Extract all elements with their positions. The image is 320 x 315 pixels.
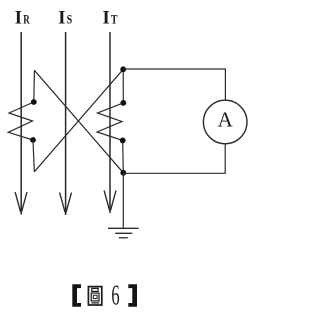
arrow IR <box>15 192 27 212</box>
caption bracket right <box>128 284 137 307</box>
wire diagonal from right top to left bottom <box>34 69 123 172</box>
wire IT phase line <box>109 32 111 213</box>
wire left branch upper segment <box>33 70 36 102</box>
ammeter A <box>203 100 247 144</box>
svg-text:6: 6 <box>111 280 119 312</box>
node left bottom junction <box>30 137 36 143</box>
arrow IT <box>104 191 116 211</box>
resistor left <box>8 102 34 140</box>
caption bracket left <box>72 284 81 307</box>
resistor right <box>97 103 123 140</box>
svg-text:IT: IT <box>103 8 118 28</box>
node left top junction <box>31 99 37 105</box>
node right junction 3 <box>120 138 126 144</box>
svg-text:IS: IS <box>58 8 72 28</box>
wire diagonal from left top to right bottom <box>34 70 123 173</box>
svg-text:IR: IR <box>15 8 30 28</box>
arrow IS <box>60 193 72 213</box>
wire right branch lower segment <box>122 140 125 172</box>
wire left branch lower segment <box>33 140 34 172</box>
wire ammeter loop bottom <box>123 144 225 174</box>
node right junction 4 <box>120 170 126 176</box>
ground <box>108 228 139 238</box>
caption character tu (figure) <box>88 287 101 305</box>
wire right branch upper segment <box>122 69 124 103</box>
wire ammeter loop top <box>123 69 225 100</box>
node right junction 2 <box>120 100 126 106</box>
wire IR phase line <box>20 32 22 215</box>
wire IS phase line <box>65 32 67 215</box>
svg-text:A: A <box>218 107 234 131</box>
node right junction 1 <box>120 66 126 72</box>
wire ground stem <box>122 173 124 229</box>
